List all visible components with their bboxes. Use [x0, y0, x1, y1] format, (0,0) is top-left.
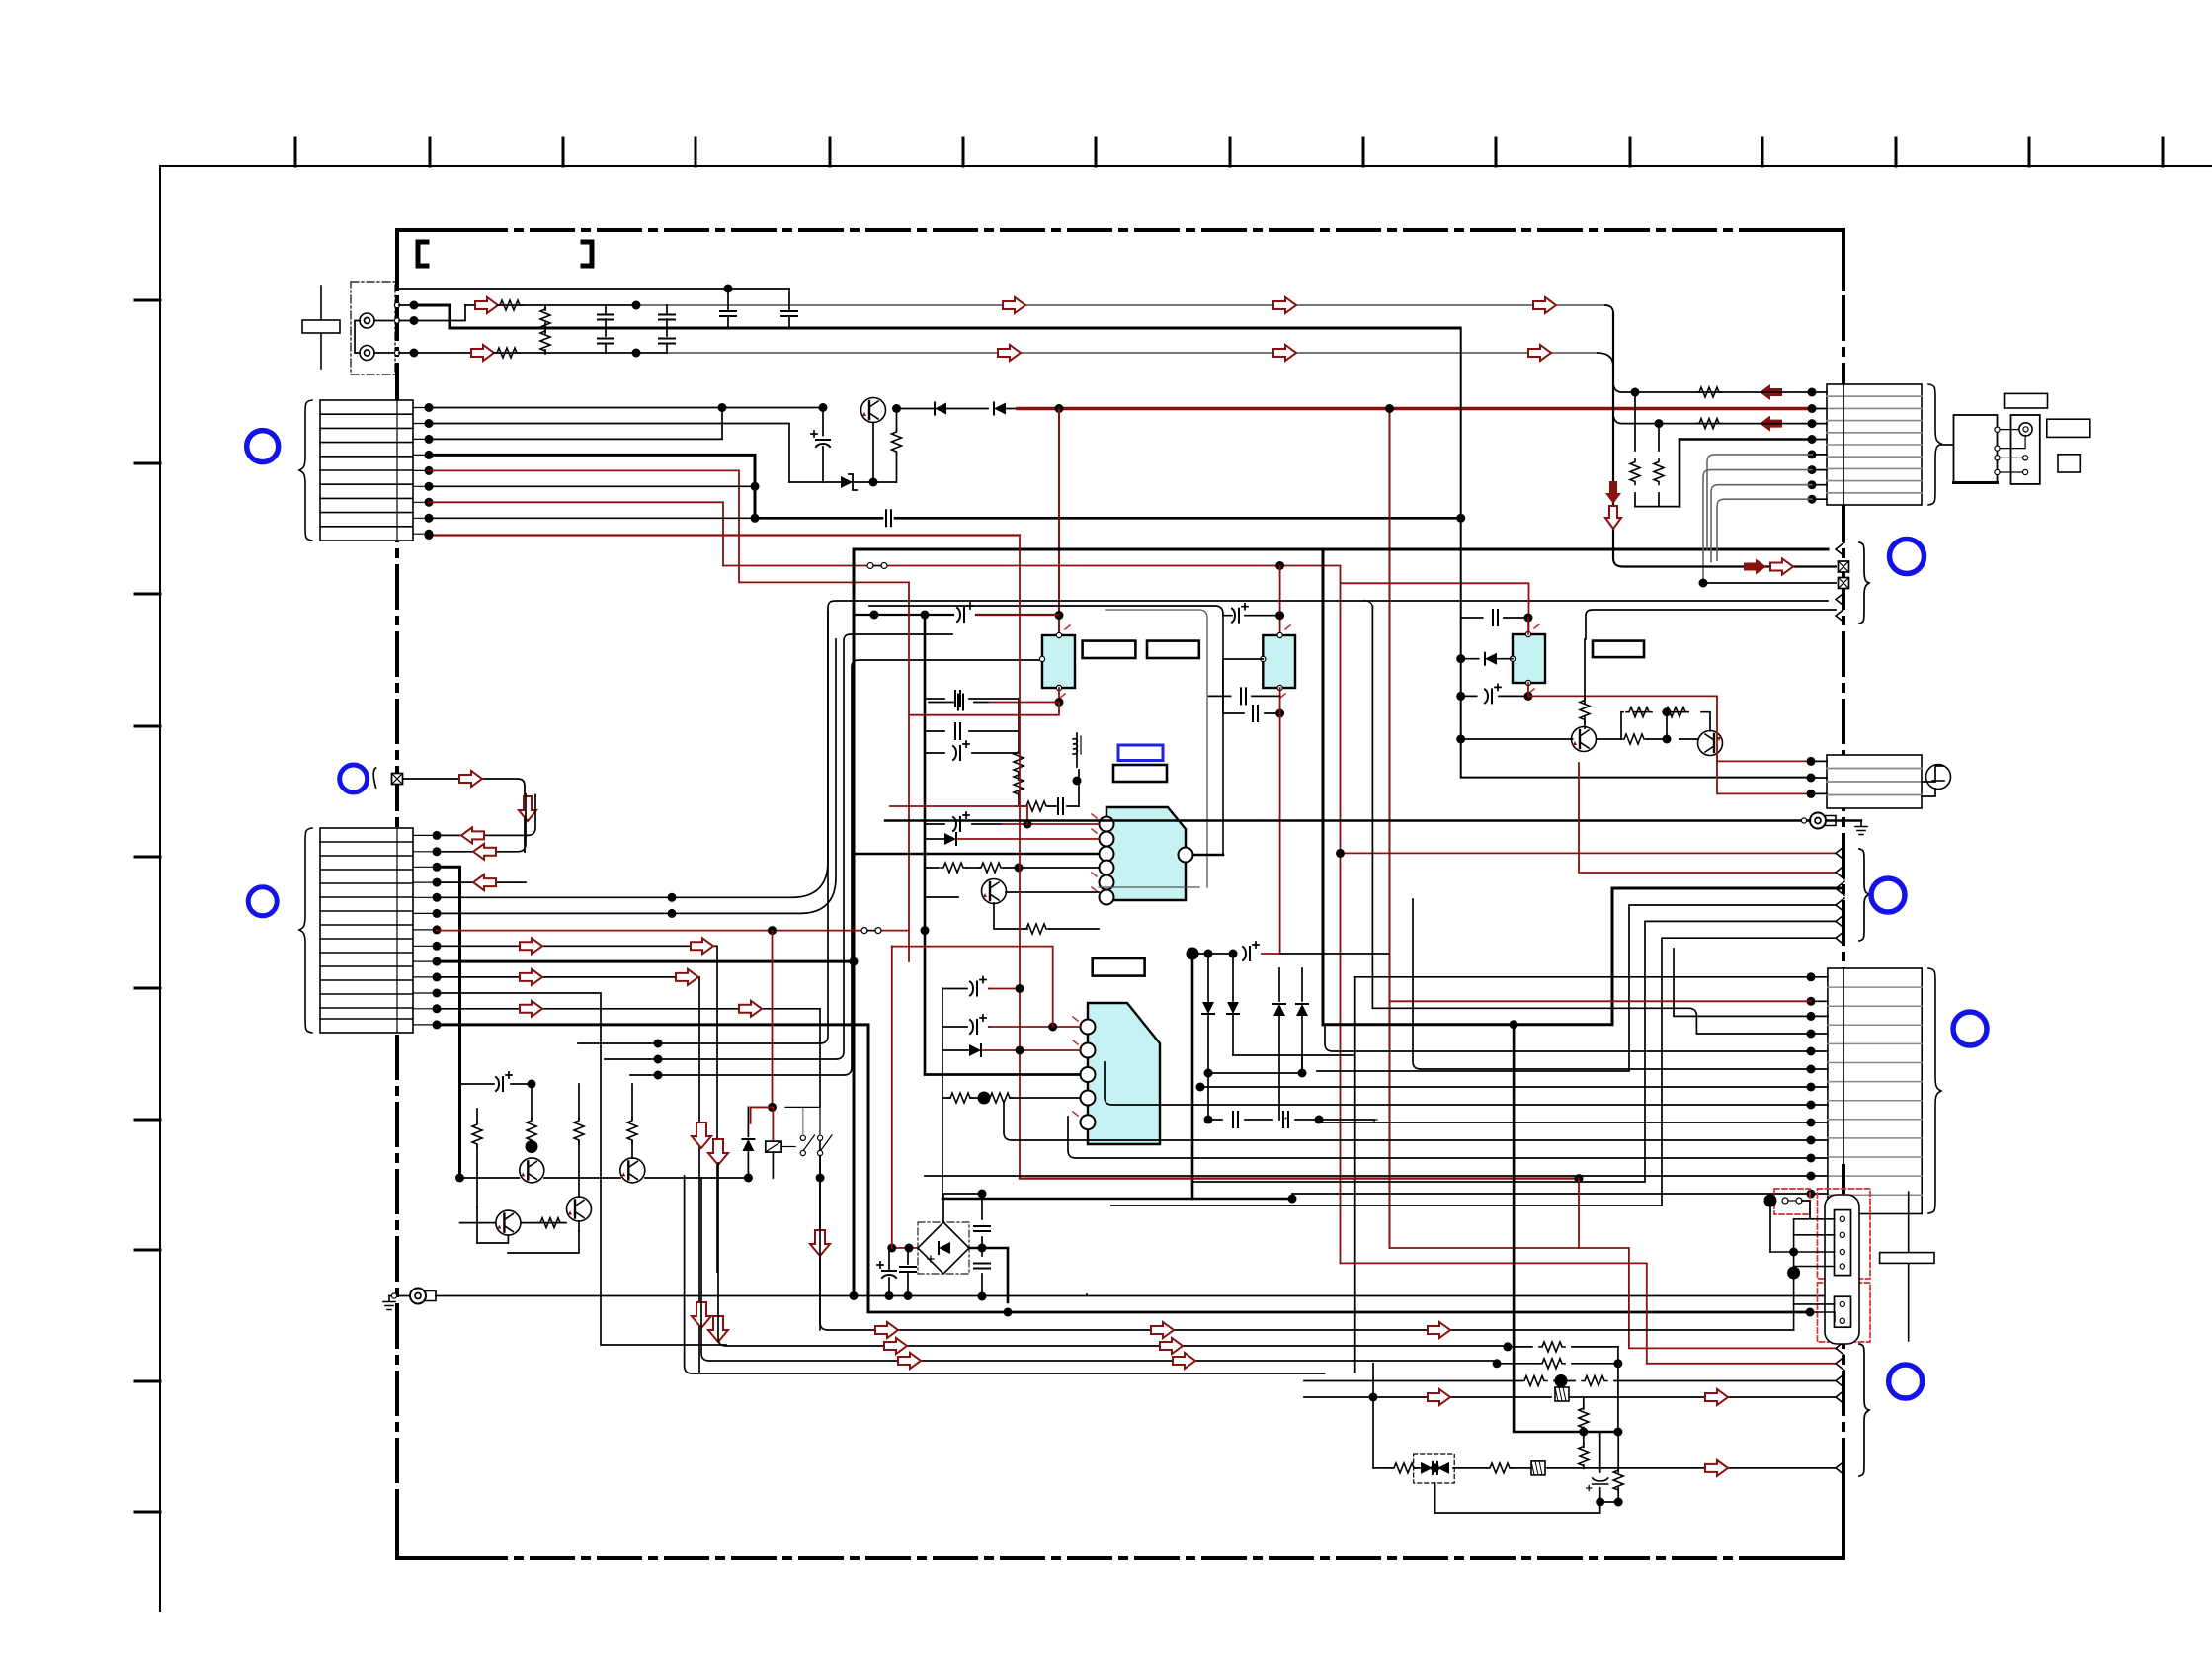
- pill inner rect1: [1835, 1210, 1851, 1276]
- CN5 body: [1827, 755, 1922, 808]
- CN1 pin dots: [425, 403, 434, 412]
- row B5: [1192, 921, 1836, 1182]
- node dots CN4 pullups: [1631, 388, 1640, 397]
- red y1278: [1341, 1263, 1837, 1363]
- CN6 pin dots: [1807, 972, 1816, 981]
- CN5 dots: [1807, 757, 1816, 766]
- red link: [751, 1106, 774, 1108]
- diode D3 up: [747, 1107, 749, 1178]
- transistor Q1: [861, 398, 886, 423]
- terminal r3: [1836, 1374, 1844, 1388]
- X wire: [403, 779, 525, 852]
- transistor Q5: [982, 879, 1007, 904]
- ext label small: [2058, 455, 2080, 472]
- row dots: [654, 1040, 663, 1048]
- arrows q8: [520, 938, 542, 954]
- U4 pin2 diode: [942, 1049, 968, 1051]
- CN6 row2 red: [1390, 1000, 1812, 1002]
- CN6 row5..13 fan: [1325, 1026, 1811, 1051]
- row B y1362: [718, 1163, 1508, 1346]
- U3 pin4 resistors: [925, 867, 1099, 869]
- red rail B+: [1018, 407, 1812, 411]
- inductor x1090: [1076, 733, 1078, 767]
- arrow r5: [1705, 1460, 1728, 1476]
- transistor Q8: [567, 1197, 592, 1221]
- wire link to pill: [1769, 1201, 1771, 1252]
- vert x1372: [1354, 977, 1356, 1373]
- shunt cap 3: [666, 305, 668, 328]
- cap bank2: [981, 1248, 983, 1296]
- red riser to J-row: [1341, 852, 1837, 854]
- row B3 thick: [1323, 888, 1843, 1025]
- resistor chain x1031: [1018, 699, 1020, 806]
- U2 bottom red: [1279, 688, 1281, 954]
- Q11 red out: [1716, 755, 1718, 761]
- node clamp mid: [1431, 1463, 1439, 1472]
- arrow dn 1: [692, 1123, 711, 1148]
- resistor base: [1584, 639, 1586, 728]
- CN4 rows 5-9 gray: [1707, 455, 1812, 549]
- U5 bottom red right: [1527, 683, 1529, 696]
- switch S1 levers: [785, 1107, 832, 1150]
- wire p7 red: [429, 502, 723, 565]
- resistor R: [494, 348, 520, 358]
- cap on U2 bottom net: [1209, 695, 1280, 697]
- U1 body: [1042, 635, 1075, 688]
- arrow dn 4: [692, 1302, 711, 1328]
- U3 pin1 ecap: [925, 823, 1002, 825]
- brace B: [1859, 849, 1869, 941]
- arrows q10: [520, 969, 542, 985]
- ring1 blue: [247, 431, 279, 462]
- transistor Q11: [1698, 731, 1723, 756]
- link y1086: [1208, 1072, 1302, 1074]
- row r2: [1497, 1363, 1618, 1365]
- ext jack: [2019, 423, 2032, 436]
- U4 pin0 cap: [942, 988, 990, 990]
- vert x1389: [1371, 606, 1373, 1008]
- CN4 brace: [1928, 384, 1941, 505]
- arrow q1 left: [461, 827, 484, 843]
- board border top: [397, 228, 1843, 232]
- base dot: [526, 1140, 538, 1153]
- node dots: [410, 301, 419, 310]
- junction dots LR: [632, 301, 641, 310]
- ring7 blue: [1953, 1012, 1987, 1045]
- U5 ecap bottom: [1461, 695, 1528, 697]
- ground bus wire: [414, 305, 1460, 328]
- red riser x781: [751, 931, 773, 1123]
- arrow R in: [471, 345, 494, 361]
- line term4: [1836, 609, 1844, 623]
- diode D1: [935, 403, 946, 415]
- U5 red feed: [1341, 583, 1529, 634]
- transistor Q6: [520, 1158, 544, 1183]
- pullup resistors CN4: [1634, 392, 1636, 506]
- shunt cap 4: [666, 328, 668, 353]
- row B4: [1317, 905, 1836, 1071]
- shunt cap 2: [605, 328, 607, 353]
- CN6 row12 wire: [925, 1175, 1811, 1177]
- motor M: [1922, 766, 1943, 782]
- board name brackets: [418, 242, 427, 266]
- ext box1: [1954, 415, 1998, 483]
- U5 body: [1513, 634, 1545, 683]
- riser line b: [605, 634, 952, 1059]
- red stub relay: [772, 1107, 774, 1141]
- thick border stub: [1842, 1166, 1845, 1539]
- pill body: [1825, 1195, 1859, 1344]
- arrow X: [459, 771, 482, 787]
- lug: [410, 1289, 436, 1304]
- ruler left line: [159, 166, 161, 1611]
- arrow L in: [475, 297, 498, 313]
- ext label right: [2047, 419, 2090, 437]
- Q9 connections: [477, 1178, 508, 1243]
- red stub to U2: [1279, 566, 1281, 636]
- switch S1: [781, 1146, 795, 1148]
- diode Dc: [1278, 968, 1280, 1120]
- cap bank1: [981, 1194, 983, 1248]
- X terminal: [392, 774, 403, 785]
- red corner x902: [891, 947, 893, 1248]
- y623 row from Q10 chain: [1586, 610, 1836, 639]
- upper resistor pair: [1621, 712, 1710, 739]
- wire p3 joins p1: [429, 408, 722, 440]
- connector CN1 brace: [299, 400, 312, 541]
- wire cap bottom link: [1600, 1501, 1619, 1503]
- U3 pin2 diode: [925, 838, 944, 840]
- U4 pin4 resistors: [942, 1097, 1080, 1099]
- link pair dashed box: [1774, 1189, 1810, 1214]
- U4 body: [1088, 1003, 1160, 1144]
- resistor Rc: [578, 1084, 580, 1197]
- wire q9 thick: [437, 960, 854, 963]
- red feed: [892, 1247, 925, 1249]
- label rect under blue: [1113, 765, 1167, 782]
- jack J2: [360, 346, 374, 361]
- arrow down filled on riser: [1605, 481, 1621, 504]
- arrows q12: [520, 1001, 542, 1017]
- CN6 row9 wire: [1319, 1122, 1811, 1123]
- bridge out thick: [969, 1248, 1008, 1302]
- ruler top line: [160, 165, 2212, 167]
- jack link wire: [355, 321, 397, 354]
- wire q5: [437, 611, 828, 897]
- U3 body: [1106, 807, 1186, 900]
- transistor Q9: [496, 1210, 521, 1235]
- U4 label box: [1093, 958, 1145, 976]
- U5 label: [1593, 641, 1644, 658]
- wire q11: [437, 993, 726, 1345]
- jack pins: [394, 302, 399, 307]
- red branch to U1: [1058, 409, 1060, 636]
- line to xbox2: [1703, 582, 1836, 584]
- CN4 body: [1827, 384, 1922, 505]
- resistor Ra: [476, 1109, 478, 1178]
- ground rail y1311: [436, 1295, 1826, 1297]
- wire q3 thick down: [437, 867, 460, 1178]
- node r4: [1369, 1393, 1378, 1402]
- red riser a: [892, 947, 1053, 1027]
- arrow down open on riser: [1605, 506, 1621, 529]
- ruler left ticks: [135, 300, 160, 1512]
- row B6: [1111, 938, 1836, 1206]
- connector CN2 brace: [299, 828, 312, 1033]
- ext pins: [1995, 427, 2000, 432]
- shunt resistor 2: [544, 328, 546, 353]
- jack plate symbol: [320, 286, 322, 369]
- riser x1633: [1613, 313, 1836, 567]
- jack J1: [360, 313, 374, 328]
- U2 cap top: [1223, 615, 1280, 617]
- rail y512: [1635, 506, 1679, 508]
- CN4 row3: [1696, 419, 1722, 429]
- wire p8: [429, 517, 755, 519]
- CN4 row4 thick: [1679, 438, 1812, 441]
- arrow row3 filled left: [1760, 416, 1782, 432]
- CN6 row10 wire: [1004, 1101, 1811, 1140]
- board border left: [395, 230, 399, 1558]
- arrow dn 3: [810, 1230, 830, 1256]
- U2 cap2 row: [1223, 659, 1280, 713]
- bridge top wire: [943, 1194, 982, 1222]
- arrow q4 left: [473, 874, 496, 890]
- pill dashed box upper: [1818, 1189, 1871, 1279]
- arrow row1 filled left: [1760, 384, 1782, 400]
- wire L-signal jog: [414, 305, 465, 321]
- brace A: [1859, 542, 1869, 624]
- wire q2: [437, 794, 526, 852]
- row B2 red: [1579, 763, 1836, 873]
- zener D_z: [789, 481, 896, 483]
- ext label top: [2005, 393, 2048, 408]
- board border right: [1842, 230, 1845, 1558]
- resistor R_reg: [896, 409, 898, 483]
- U2 body: [1263, 635, 1295, 688]
- wire y622 w/ cap: [854, 614, 1059, 616]
- U1 label box 1: [1083, 641, 1136, 658]
- wire R signal: [414, 352, 667, 354]
- ecap row y762: [925, 752, 1019, 754]
- red branch long right: [1389, 409, 1391, 1249]
- row B1 red: [1836, 846, 1844, 860]
- T symbol right: [1908, 1192, 1910, 1341]
- red drop to y723: [909, 703, 1059, 715]
- ext box2: [2011, 415, 2040, 484]
- thick rail y1328: [870, 1311, 1810, 1314]
- wire p2: [429, 424, 789, 483]
- riser line a: [578, 601, 1828, 1043]
- wire q7 red: [437, 930, 909, 932]
- bottom link: [1435, 1483, 1600, 1513]
- RC series y816: [1016, 805, 1079, 807]
- row r3: [1304, 1380, 1836, 1382]
- coupling cap B: [788, 289, 790, 328]
- CN6 row1: [1355, 976, 1811, 978]
- red net y572: [723, 566, 1341, 1264]
- row A y1346: [820, 1180, 1794, 1330]
- caps series y1133: [1208, 1119, 1374, 1121]
- bridge BD1: [918, 1222, 969, 1274]
- resistor Rd: [631, 1084, 633, 1158]
- pill stub bus: [1793, 1219, 1795, 1330]
- diode D2: [994, 403, 1006, 415]
- CN6 row4: [1372, 1008, 1811, 1034]
- U3 out pin wire: [1193, 854, 1223, 857]
- frame top/left/right: [854, 549, 1828, 1295]
- diode Db: [1232, 954, 1234, 1055]
- shunt resistor 1: [544, 305, 546, 328]
- terminal r5: [1836, 1461, 1844, 1475]
- cap row y740: [925, 730, 1019, 732]
- wire q13 thick: [437, 1025, 868, 1312]
- thick rail end: [1810, 1312, 1835, 1321]
- vert x1637: [1617, 1347, 1619, 1433]
- ground sym: [383, 1296, 395, 1310]
- cap + ecap + res bottom: [1599, 1432, 1601, 1502]
- link y1258: [508, 1231, 579, 1253]
- CN2 pin dots: [433, 831, 442, 840]
- arrow down X: [519, 796, 536, 821]
- relay RY: [766, 1141, 781, 1152]
- wire p5 red: [429, 470, 739, 582]
- pill dashed box lower: [1818, 1283, 1871, 1342]
- blue label rect: [1118, 745, 1163, 761]
- riser line c: [630, 660, 1046, 1075]
- pin lug: [1801, 818, 1806, 823]
- ruler top ticks: [295, 138, 2163, 166]
- feed cap q8row: [460, 1083, 532, 1085]
- jack dashed box: [351, 282, 395, 374]
- base bus y1192: [460, 1177, 750, 1179]
- wire q4: [437, 881, 526, 883]
- U4 pin1 cap: [942, 1026, 990, 1028]
- wire L signal: [465, 304, 636, 306]
- red drop x1032: [1019, 538, 1021, 1179]
- wire q8: [437, 946, 717, 1272]
- U1 bottom cap / red: [1058, 688, 1060, 703]
- U4 bottom rail: [942, 1198, 1292, 1201]
- ring6 blue: [1871, 878, 1905, 912]
- U4 left bus: [942, 989, 943, 1200]
- ecap left: [888, 1248, 890, 1296]
- wire p4 thick: [429, 455, 755, 518]
- link y1068: [1233, 1054, 1353, 1056]
- wire p6: [429, 485, 755, 487]
- diode Da: [1207, 954, 1209, 1120]
- ext wiring: [2000, 430, 2025, 472]
- red feed y816: [890, 805, 1027, 807]
- arrow q2 left: [473, 844, 496, 860]
- red y1192: [1020, 1177, 1579, 1179]
- red net y589: [739, 581, 909, 583]
- diode clamp right: [1421, 1462, 1433, 1474]
- row r5 + clamp diodes: [1372, 1364, 1374, 1468]
- U3 pin6 from Q: [925, 892, 1099, 897]
- coupling cap A: [724, 285, 733, 293]
- cap C_reg: [819, 403, 828, 412]
- brace C: [1859, 1344, 1869, 1476]
- wire q12: [437, 1009, 820, 1330]
- pill inner rect2: [1835, 1296, 1851, 1327]
- CN6 row13 wire: [1292, 1193, 1811, 1195]
- U4 right rail: [1191, 954, 1194, 1199]
- cap into U1: [929, 702, 989, 704]
- red y957: [892, 946, 893, 948]
- clamp diode pair box: [1414, 1454, 1455, 1483]
- U3 pin3 thick: [854, 853, 1099, 856]
- board border bottom: [397, 1556, 1843, 1560]
- U5 cap top: [1461, 617, 1528, 619]
- row D y1390: [685, 1176, 1325, 1373]
- ring3 blue: [248, 887, 277, 916]
- U1 label box 2: [1147, 641, 1199, 658]
- transistor Q7: [620, 1158, 645, 1183]
- thick L x1532: [1514, 1025, 1618, 1432]
- wire q10: [437, 977, 699, 1373]
- wire q6: [437, 639, 836, 913]
- diode clamp left: [1437, 1462, 1449, 1474]
- series cap p8: [886, 510, 891, 526]
- shunt cap 1: [605, 305, 607, 328]
- terminal small: [1285, 1118, 1287, 1120]
- ring5 blue: [1890, 540, 1925, 574]
- row r4 + fuse box: [1304, 1396, 1836, 1398]
- line term3 mark: [1836, 593, 1844, 607]
- ring8 blue: [1889, 1365, 1923, 1398]
- row r1: [1508, 1346, 1618, 1348]
- cap row y707: [925, 698, 1019, 700]
- connector CN2 body: [320, 828, 413, 1033]
- base resistors: [1461, 738, 1698, 740]
- row taps on riser x1633: [1613, 384, 1632, 392]
- red corner y1263: [1390, 1248, 1837, 1348]
- node stub: [1374, 1120, 1377, 1123]
- red riser x917: [908, 582, 910, 961]
- wire p1: [429, 407, 822, 409]
- U2 left pin wire: [1223, 658, 1263, 660]
- diode Dd: [1301, 968, 1303, 1073]
- wire p9 red: [429, 534, 1020, 536]
- CN6 row3: [1674, 949, 1811, 1016]
- wire switch to bus: [819, 1156, 821, 1178]
- vert resistor chain x1602: [1583, 1397, 1585, 1468]
- CN6 body: [1828, 968, 1922, 1214]
- arrow dn 2: [708, 1139, 728, 1165]
- border corner solids: [397, 230, 1843, 1558]
- rail y835: [885, 819, 1810, 821]
- CN6 brace: [1928, 968, 1941, 1213]
- connector CN1 body: [320, 400, 413, 541]
- top return wire: [399, 288, 789, 290]
- CN6 row8 wire: [1105, 1062, 1811, 1105]
- cap left2: [907, 1248, 909, 1296]
- bus x936: [925, 615, 1080, 1075]
- resistor L: [497, 300, 523, 310]
- CN6 row11 wire: [1068, 1117, 1811, 1158]
- left rail x1478: [1461, 328, 1811, 778]
- arrow dn 5: [708, 1316, 728, 1342]
- wire q1: [437, 794, 535, 835]
- CN4 pin dots: [1808, 388, 1817, 397]
- row C y1377: [701, 1178, 1497, 1361]
- resistor Rb: [531, 1084, 533, 1146]
- U4 pin3 thick: [925, 1073, 1080, 1076]
- U5 diode left: [1461, 658, 1479, 660]
- transistor Q10: [1572, 727, 1597, 752]
- CN4 row1: [1696, 387, 1722, 397]
